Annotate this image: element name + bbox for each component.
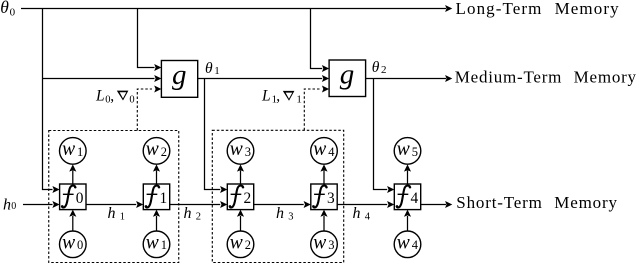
svg-text:2: 2 bbox=[245, 238, 251, 252]
wire: theta_2 line from g2 to Medium-Term Memory bbox=[366, 78, 446, 80]
arrowhead into f2 upper-left bbox=[220, 186, 227, 193]
svg-text:4: 4 bbox=[412, 238, 419, 252]
weight circle w1 (top row above f0) bbox=[60, 138, 87, 165]
svg-text:h: h bbox=[3, 196, 11, 213]
svg-text:h: h bbox=[184, 205, 192, 222]
label L_0, nabla_0 (loss and gradient at step 0) bbox=[95, 87, 135, 105]
svg-text:4: 4 bbox=[411, 190, 419, 207]
node theta_0 label bbox=[0, 0, 15, 18]
arrowhead up into circle w2 bbox=[153, 164, 160, 171]
label w1 in top circle bbox=[62, 139, 83, 160]
arrowhead into g2 bottom input bbox=[322, 85, 329, 92]
label f3 inside box bbox=[313, 186, 335, 208]
weight circle w2 (bottom row below f2) bbox=[227, 231, 254, 258]
svg-text:0: 0 bbox=[10, 6, 16, 18]
weight circle w3 (bottom row below f3) bbox=[311, 231, 338, 258]
arrowhead into g1 bottom input bbox=[154, 85, 161, 92]
svg-text:w: w bbox=[62, 232, 75, 253]
arrowhead into f4 left bbox=[387, 201, 394, 208]
wire: theta_1 line from g1 output to g2 middle input bbox=[198, 78, 323, 80]
wire: w1 up into f1 bottom bbox=[156, 216, 158, 231]
dashed group box around f2,f3 unroll segment bbox=[212, 130, 343, 262]
node h_4 label bbox=[353, 205, 371, 222]
node h_1 label bbox=[108, 205, 125, 222]
svg-text:Short-Term Memory: Short-Term Memory bbox=[456, 193, 618, 212]
svg-text:w: w bbox=[313, 232, 326, 253]
svg-text:4: 4 bbox=[365, 211, 371, 222]
weight circle w3 (top row above f2) bbox=[227, 138, 254, 165]
arrowhead into Medium-Term Memory bbox=[445, 75, 452, 82]
node h_2 label bbox=[184, 205, 201, 222]
node theta_2 label bbox=[372, 59, 387, 76]
svg-text:θ: θ bbox=[205, 60, 213, 77]
node h_0 label bbox=[3, 196, 16, 213]
svg-text:2: 2 bbox=[381, 64, 387, 76]
wire: f2 up to weight circle w3 bbox=[240, 171, 242, 185]
wire: elbow from top theta line into g2 top input bbox=[311, 9, 323, 69]
svg-text:3: 3 bbox=[245, 145, 251, 159]
label w0 in bottom circle bbox=[62, 232, 83, 253]
label w5 in top circle bbox=[397, 139, 418, 160]
wire: w2 up into f2 bottom bbox=[240, 216, 242, 231]
arrowhead into f0 upper-left bbox=[52, 186, 59, 193]
arrowhead into f3 left bbox=[304, 201, 311, 208]
label w3 in top circle bbox=[230, 139, 251, 160]
node theta_1 label bbox=[205, 60, 220, 77]
arrowhead into Long-Term Memory bbox=[445, 5, 452, 12]
cell box f0 bbox=[60, 184, 86, 210]
svg-text:1: 1 bbox=[296, 93, 302, 105]
weight circle w0 (bottom row below f0) bbox=[60, 231, 87, 258]
svg-text:1: 1 bbox=[120, 211, 125, 222]
wire: f4 output to Short-Term Memory bbox=[421, 204, 446, 206]
svg-text:2: 2 bbox=[196, 211, 201, 222]
label L_1, nabla_1 (loss and gradient at step 1) bbox=[261, 88, 302, 106]
label w2 in top circle bbox=[146, 139, 167, 160]
arrowhead up into f0 bottom bbox=[69, 210, 76, 217]
svg-text:4: 4 bbox=[328, 145, 335, 159]
svg-text:1: 1 bbox=[160, 190, 168, 207]
svg-text:h: h bbox=[276, 205, 284, 222]
dashed group box around f0,f1 unroll segment bbox=[49, 131, 179, 263]
svg-text:w: w bbox=[62, 139, 75, 160]
cell box f1 bbox=[143, 184, 169, 210]
wire: h1 from f0 to f1 bbox=[86, 204, 136, 206]
wire: elbow from top theta line down into f0 bbox=[43, 9, 53, 190]
svg-text:3: 3 bbox=[327, 190, 335, 207]
weight circle w5 (top row above f4) bbox=[394, 138, 421, 165]
label w1 in bottom circle bbox=[146, 232, 167, 253]
wire: w3 up into f3 bottom bbox=[323, 216, 325, 231]
node h_3 label bbox=[276, 205, 293, 222]
dashed wire: L1,grad1 elbow into g2 bottom input bbox=[304, 89, 319, 130]
svg-text:h: h bbox=[353, 205, 361, 222]
weight circle w1 (bottom row below f1) bbox=[143, 231, 170, 258]
svg-text:w: w bbox=[313, 139, 326, 160]
weight circle w2 (top row above f1) bbox=[143, 138, 170, 165]
arrowhead into f0 left bbox=[52, 201, 59, 208]
arrowhead up into circle w4 bbox=[320, 164, 327, 171]
wire: elbow from top theta line into g1 top input bbox=[138, 9, 155, 68]
svg-text:w: w bbox=[146, 232, 159, 253]
label w4 in bottom circle bbox=[397, 232, 419, 253]
svg-text:3: 3 bbox=[328, 238, 334, 252]
svg-text:w: w bbox=[146, 139, 159, 160]
svg-text:w: w bbox=[397, 139, 410, 160]
svg-text:w: w bbox=[230, 139, 243, 160]
arrowhead into f4 upper-left bbox=[387, 186, 394, 193]
arrowhead into Short-Term Memory bbox=[445, 201, 452, 208]
arrowhead up into f3 bottom bbox=[320, 210, 327, 217]
svg-text:2: 2 bbox=[244, 190, 252, 207]
svg-text:L: L bbox=[95, 87, 105, 104]
svg-text:L: L bbox=[261, 88, 271, 105]
arrowhead into g1 middle input bbox=[154, 75, 161, 82]
svg-text:0: 0 bbox=[76, 190, 84, 207]
wire: theta_0 middle line into g1 middle input bbox=[43, 78, 155, 80]
svg-text:3: 3 bbox=[288, 211, 293, 222]
op-amp-like update box g (second) bbox=[329, 60, 366, 97]
dashed wire: L0,grad0 elbow into g1 bottom input bbox=[137, 89, 152, 131]
arrowhead up into f1 bottom bbox=[153, 210, 160, 217]
arrowhead up into circle w3 bbox=[237, 164, 244, 171]
wire: theta_0 top line to Long-Term Memory bbox=[21, 8, 446, 10]
wire: drop from theta_2 line down into f4 bbox=[374, 79, 388, 190]
wire: h0 into f0 bbox=[23, 204, 53, 206]
wire: w0 up into f0 bottom bbox=[72, 216, 74, 231]
svg-text:0: 0 bbox=[77, 238, 83, 252]
svg-text:0: 0 bbox=[129, 94, 134, 105]
arrowhead into g2 middle input bbox=[322, 75, 329, 82]
label w2 in bottom circle bbox=[230, 232, 251, 253]
weight circle w4 (bottom row below f4) bbox=[394, 231, 421, 258]
svg-text:Long-Term Memory: Long-Term Memory bbox=[456, 0, 620, 18]
arrowhead into g1 top input bbox=[154, 64, 161, 71]
arrowhead into f2 left bbox=[220, 201, 227, 208]
svg-text:g: g bbox=[172, 59, 187, 91]
wire: h4 from f3 to f4 bbox=[337, 204, 387, 206]
wire: h3 from f2 to f3 bbox=[254, 204, 304, 206]
label w4 in top circle bbox=[313, 139, 335, 160]
wire: f3 up to weight circle w4 bbox=[323, 171, 325, 185]
wire: f4 up to weight circle w5 bbox=[407, 171, 409, 185]
label f4 inside box bbox=[396, 186, 418, 208]
arrowhead up into circle w1 bbox=[69, 164, 76, 171]
arrowhead up into circle w5 bbox=[404, 164, 411, 171]
svg-text:θ: θ bbox=[372, 59, 380, 76]
cell box f4 bbox=[394, 184, 420, 210]
label f0 inside box bbox=[62, 186, 84, 208]
svg-text:2: 2 bbox=[161, 145, 167, 159]
label f2 inside box bbox=[229, 186, 251, 208]
arrowhead up into f4 bottom bbox=[404, 210, 411, 217]
svg-text:Medium-Term Memory: Medium-Term Memory bbox=[455, 68, 637, 87]
arrowhead into f1 left bbox=[136, 201, 143, 208]
wire: w4 up into f4 bottom bbox=[407, 216, 409, 231]
svg-text:0: 0 bbox=[11, 201, 16, 212]
svg-text:1: 1 bbox=[77, 145, 83, 159]
svg-text:g: g bbox=[340, 59, 355, 91]
svg-text:,: , bbox=[110, 87, 114, 104]
svg-text:5: 5 bbox=[412, 145, 418, 159]
cell box f3 bbox=[311, 184, 337, 210]
svg-text:w: w bbox=[230, 232, 243, 253]
wire: f0 up to weight circle w1 bbox=[72, 171, 74, 185]
wire: h2 from f1 to f2 bbox=[170, 204, 221, 206]
svg-text:h: h bbox=[108, 205, 116, 222]
svg-text:,: , bbox=[276, 88, 280, 105]
svg-text:θ: θ bbox=[0, 0, 9, 17]
svg-text:1: 1 bbox=[161, 238, 167, 252]
weight circle w4 (top row above f3) bbox=[311, 138, 338, 165]
op-amp-like update box g (first) bbox=[161, 61, 197, 98]
cell box f2 bbox=[227, 184, 253, 210]
arrowhead into g2 top input bbox=[322, 65, 329, 72]
arrowhead up into f2 bottom bbox=[237, 210, 244, 217]
svg-text:w: w bbox=[397, 232, 410, 253]
wire: drop from theta_1 line down into f2 bbox=[205, 79, 221, 190]
wire: f1 up to weight circle w2 bbox=[156, 171, 158, 185]
svg-text:1: 1 bbox=[214, 65, 220, 77]
label f1 inside box bbox=[145, 186, 167, 208]
label w3 in bottom circle bbox=[313, 232, 334, 253]
